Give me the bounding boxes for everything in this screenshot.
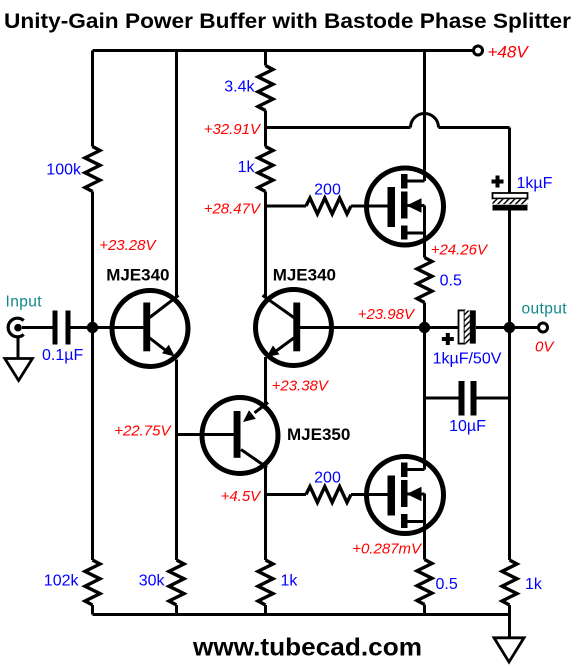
svg-text:3.4k: 3.4k — [224, 78, 255, 95]
svg-text:MJE350: MJE350 — [287, 425, 350, 444]
svg-text:0.5: 0.5 — [440, 273, 462, 290]
svg-text:Input: Input — [6, 294, 43, 311]
svg-text:30k: 30k — [139, 572, 166, 589]
svg-text:1k: 1k — [525, 576, 543, 593]
svg-text:1k: 1k — [238, 159, 256, 176]
svg-text:102k: 102k — [44, 572, 80, 589]
svg-text:1k: 1k — [281, 572, 299, 589]
svg-text:+28.47V: +28.47V — [204, 200, 262, 217]
svg-text:+4.5V: +4.5V — [221, 488, 263, 505]
svg-text:0.5: 0.5 — [436, 576, 458, 593]
svg-text:+23.98V: +23.98V — [358, 306, 416, 323]
svg-text:Unity-Gain Power Buffer with B: Unity-Gain Power Buffer with Bastode Pha… — [4, 10, 571, 33]
svg-text:+23.28V: +23.28V — [99, 237, 157, 254]
svg-text:MJE340: MJE340 — [273, 265, 336, 284]
svg-text:MJE340: MJE340 — [106, 265, 169, 284]
svg-text:www.tubecad.com: www.tubecad.com — [192, 634, 422, 662]
svg-text:+48V: +48V — [488, 43, 530, 62]
svg-text:100k: 100k — [46, 162, 82, 179]
svg-text:+23.38V: +23.38V — [272, 378, 330, 395]
svg-text:200: 200 — [314, 181, 341, 198]
svg-text:+24.26V: +24.26V — [431, 241, 489, 258]
svg-text:+32.91V: +32.91V — [204, 121, 262, 138]
svg-text:1kµF/50V: 1kµF/50V — [433, 351, 502, 368]
svg-text:+0.287mV: +0.287mV — [352, 540, 423, 557]
svg-text:200: 200 — [314, 470, 341, 487]
svg-text:0V: 0V — [535, 339, 555, 356]
svg-text:0.1µF: 0.1µF — [42, 347, 83, 364]
svg-text:1kµF: 1kµF — [517, 175, 553, 192]
svg-text:+22.75V: +22.75V — [114, 423, 172, 440]
svg-text:output: output — [522, 300, 568, 317]
svg-text:10µF: 10µF — [449, 418, 486, 435]
